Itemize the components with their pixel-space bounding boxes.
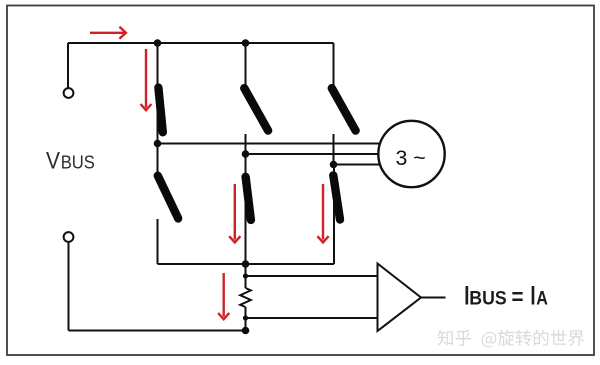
wire: amplifier output bbox=[421, 297, 446, 299]
svg-text:BUS: BUS bbox=[61, 152, 95, 173]
resistor Rshunt (bus current shunt) bbox=[240, 288, 251, 307]
wire: top DC bus rail bbox=[68, 42, 334, 44]
node: bottom return / shunt junction bbox=[242, 327, 250, 335]
svg-text:3 ~: 3 ~ bbox=[396, 146, 426, 170]
wire: phase-A low-side lower contact stub to negative rail bbox=[157, 219, 159, 264]
wire: negative bus rail bbox=[158, 263, 335, 265]
wire: phase-C lower contact stub to node C bbox=[333, 134, 335, 165]
wire: phase-C low-side column to negative rail bbox=[333, 165, 335, 265]
wire: phase-A upper column (rail to phase A node) bbox=[157, 43, 159, 144]
wire: shunt bottom lead bbox=[245, 307, 247, 331]
node: negative rail / shunt junction bbox=[242, 260, 250, 268]
wire: phase C line to motor bbox=[334, 164, 381, 166]
svg-text:=: = bbox=[512, 283, 524, 309]
switch Q6 (phase C low-side, closed) bbox=[333, 175, 340, 219]
svg-text:BUS: BUS bbox=[469, 288, 506, 309]
motor M1 (3-phase) bbox=[378, 121, 444, 187]
wire: V- terminal drop bbox=[68, 242, 70, 331]
switch Q2 (phase A low-side, open) bbox=[158, 176, 178, 219]
wire: shunt top lead bbox=[245, 264, 247, 288]
node: rail / phase-A column junction bbox=[154, 39, 162, 47]
switch Q4 (phase B low-side, closed) bbox=[246, 177, 251, 220]
terminal: V+ (open circle) bbox=[64, 88, 74, 98]
terminal: V- (open circle) bbox=[64, 232, 74, 242]
svg-text:V: V bbox=[46, 147, 61, 174]
node: shunt bottom sense tap bbox=[243, 315, 248, 320]
wire: amplifier bottom input tap bbox=[246, 317, 378, 319]
current arrow: down through Q4 bbox=[234, 184, 236, 240]
current arrow: down through Q6 bbox=[322, 184, 324, 240]
wire: phase-A low-side upper contact stub bbox=[157, 144, 159, 173]
node: rail / phase-B column junction bbox=[242, 39, 250, 47]
watermark: 知乎 @旋转的世界 bbox=[438, 330, 585, 348]
node: shunt top sense tap bbox=[243, 273, 248, 278]
node C (phase C output) bbox=[330, 161, 338, 169]
switch Q3 (phase B high-side, open) bbox=[244, 88, 268, 130]
wire: phase B line to motor bbox=[246, 153, 379, 155]
label: IBUS = IA bbox=[464, 280, 548, 310]
current arrow: down through Q1 bbox=[145, 49, 147, 108]
wire: amplifier top input tap bbox=[246, 275, 378, 277]
wire: phase-C upper contact stub bbox=[333, 43, 335, 85]
wire: phase-B lower contact stub to node B bbox=[245, 134, 247, 154]
current arrow: down through shunt bbox=[222, 273, 224, 317]
wire: phase-B upper contact stub bbox=[245, 43, 247, 85]
node B (phase B output) bbox=[242, 150, 250, 158]
node A (phase A output) bbox=[154, 140, 162, 148]
label: VBUS bbox=[46, 147, 95, 174]
switch Q1 (phase A high-side, closed) bbox=[158, 88, 162, 133]
wire: left drop from top rail to V+ terminal bbox=[67, 43, 69, 88]
wire: phase-B low-side column to negative rail bbox=[245, 154, 247, 264]
switch Q5 (phase C high-side, open) bbox=[332, 88, 356, 130]
svg-text:I: I bbox=[530, 280, 535, 310]
op-amp U1 (current sense amplifier) bbox=[378, 264, 422, 332]
wire: bottom return wire to V- terminal bbox=[69, 330, 246, 332]
current arrow: bus current into rail (right) bbox=[90, 32, 125, 34]
svg-text:A: A bbox=[536, 288, 548, 309]
wire: phase A line to motor bbox=[158, 143, 381, 145]
